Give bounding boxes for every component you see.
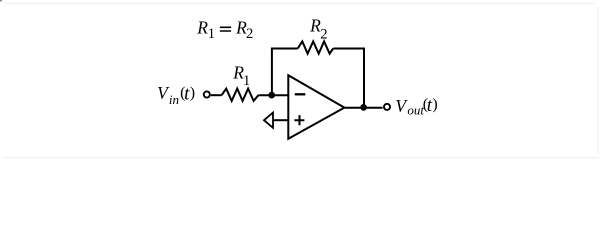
svg-text:2: 2 — [320, 26, 327, 42]
svg-text:1: 1 — [243, 73, 250, 89]
svg-text:): ) — [432, 96, 437, 113]
svg-text:in: in — [169, 92, 179, 107]
svg-text:R: R — [196, 17, 208, 37]
svg-text:): ) — [190, 85, 195, 102]
svg-text:2: 2 — [246, 26, 253, 42]
svg-text:1: 1 — [208, 26, 215, 42]
